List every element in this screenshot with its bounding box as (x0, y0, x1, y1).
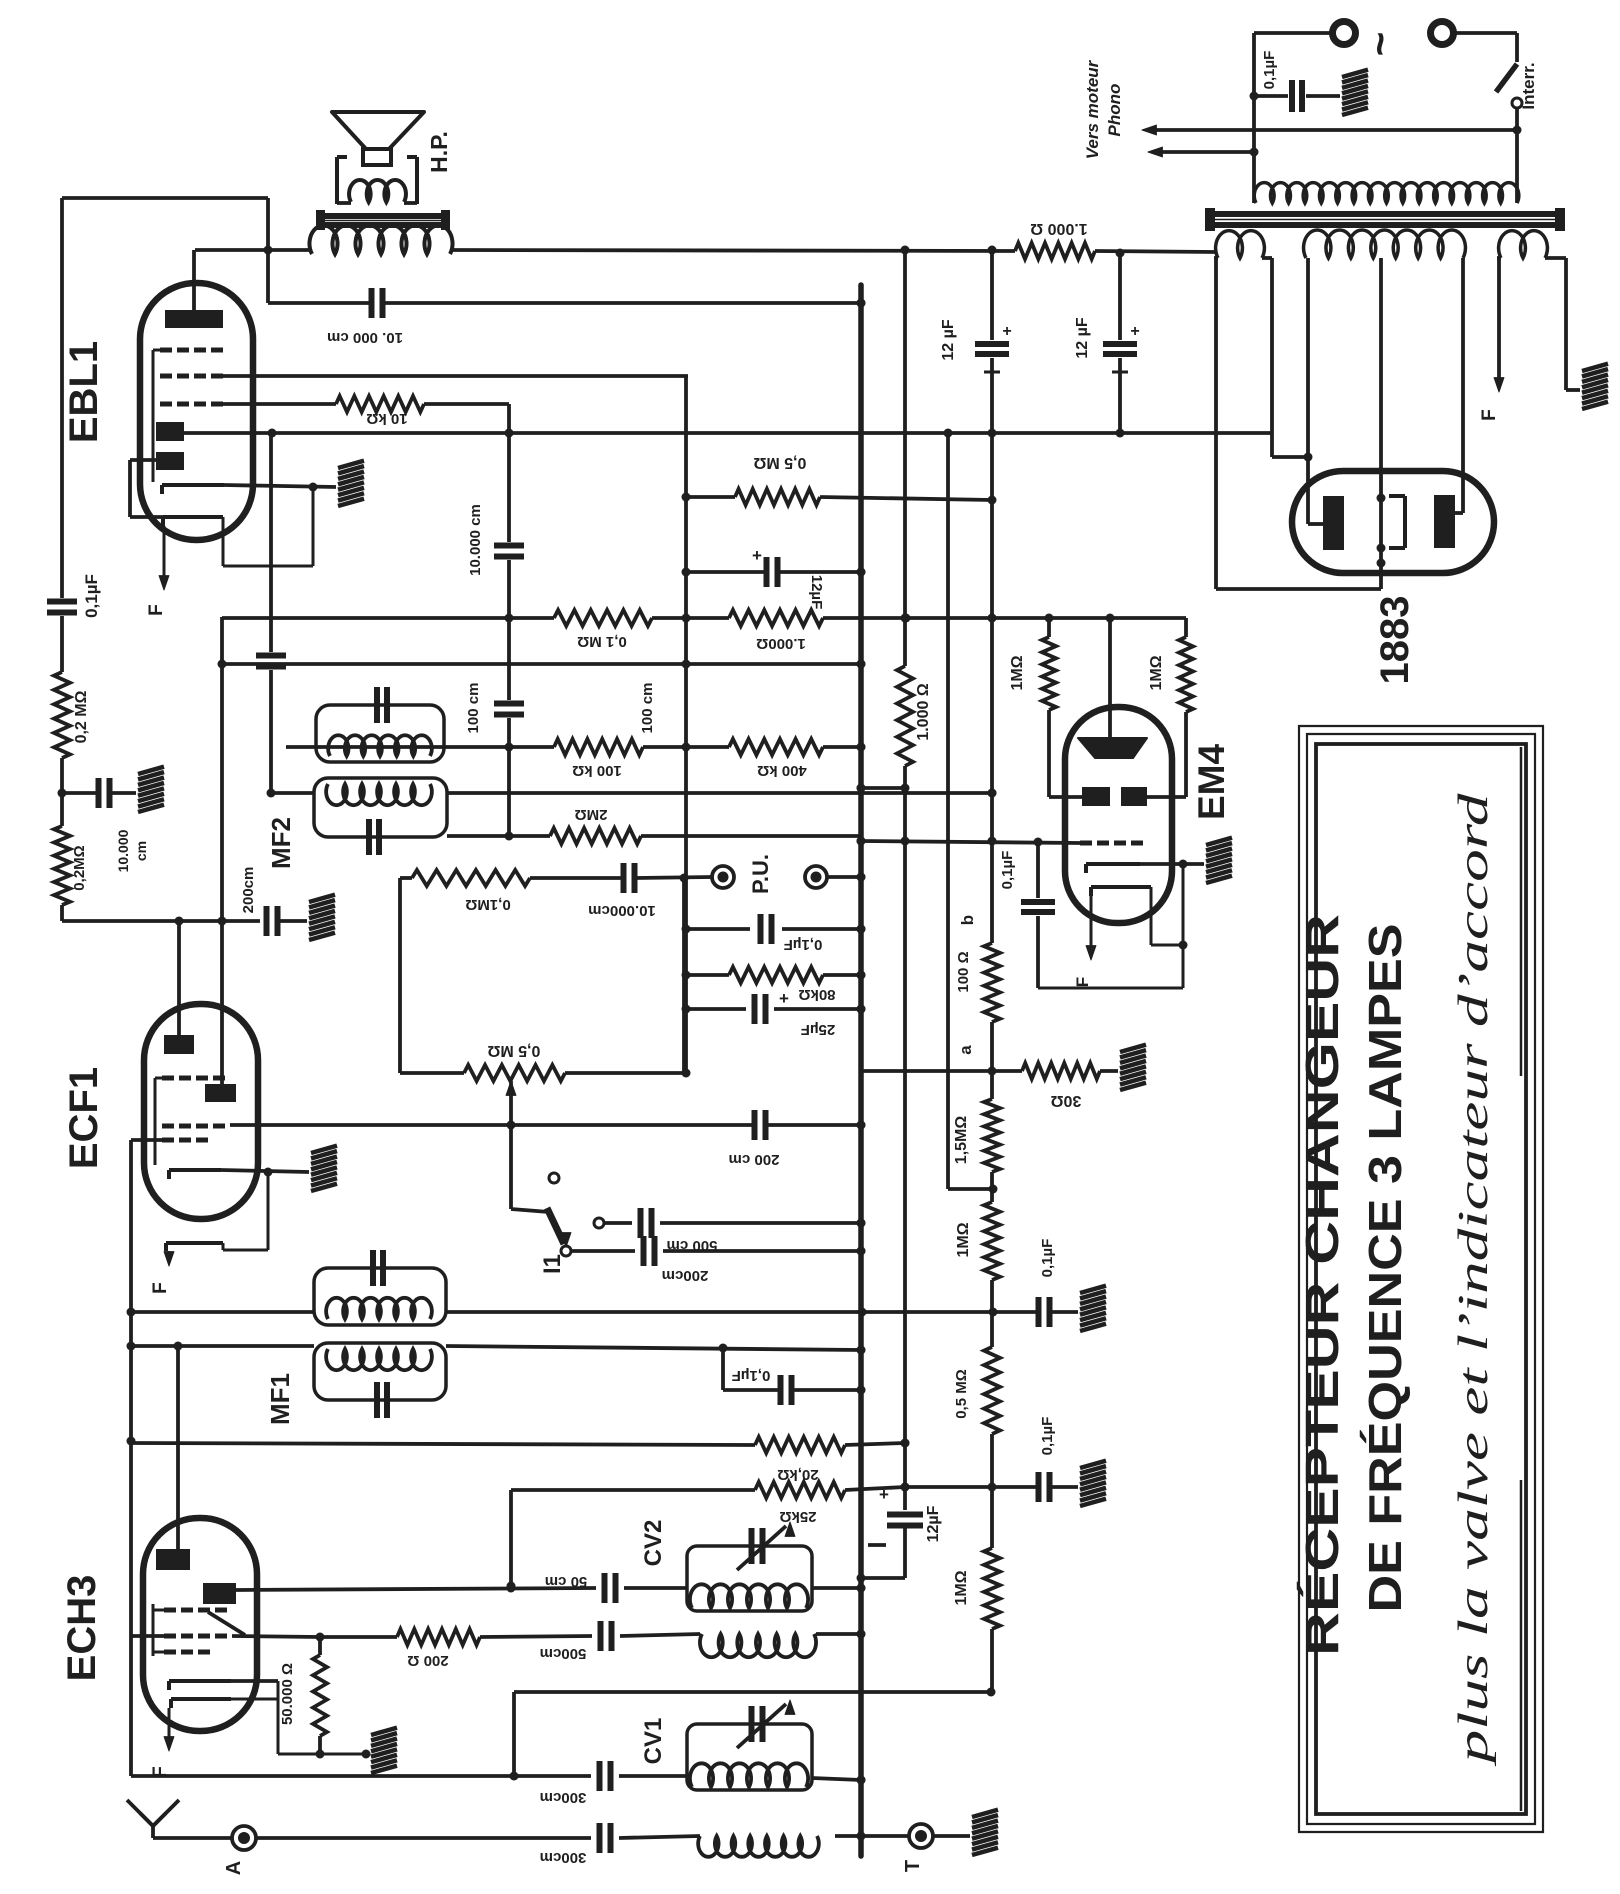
transformer primary coil (1254, 183, 1519, 203)
capacitor 200cm (264, 906, 270, 936)
CV1 coil (690, 1763, 808, 1787)
antenna coil (698, 1836, 819, 1857)
EBL1 plate (165, 310, 223, 328)
svg-text:plus la valve et l’indicateur: plus la valve et l’indicateur d’accord (1451, 792, 1497, 1767)
wire PU right to bus (827, 875, 861, 879)
node y433 junctions (268, 429, 277, 438)
svg-text:0,2MΩ: 0,2MΩ (71, 845, 88, 890)
node bus top (857, 299, 866, 308)
wire 50cm to CV2 (624, 1586, 687, 1590)
ECF1 F arrow (168, 1251, 171, 1253)
coil3 left F arrow (1497, 258, 1501, 382)
ground ECH3 (371, 1728, 397, 1735)
wire y152 phono (1156, 150, 1254, 154)
svg-text:MF1: MF1 (265, 1373, 295, 1425)
tube 1883 envelope (1292, 471, 1494, 573)
link bus to x905 (861, 786, 905, 790)
tube ECH3 envelope (143, 1518, 257, 1731)
svg-text:0,1µF: 0,1µF (784, 936, 823, 953)
resistor 30 ohm (1022, 1063, 1100, 1079)
secondary coil 1 (1216, 231, 1265, 258)
svg-text:A: A (223, 1861, 245, 1875)
ECF1 grid row2 (162, 1124, 174, 1129)
resistor 0,1M AF (412, 870, 530, 886)
title box outer wavy border (1299, 726, 1543, 1832)
MF2 primary coil (328, 735, 432, 756)
ECF1 grid row1 (162, 1076, 174, 1081)
EBL1 cathode bracket2 (163, 515, 223, 519)
wire left edge vertical (60, 198, 64, 598)
coil2 left down (1306, 258, 1310, 524)
svg-text:25µF: 25µF (801, 1021, 836, 1038)
resistor 2M (550, 828, 641, 844)
resistor 1M EM4 right (1179, 637, 1193, 712)
output transformer primary coil (309, 225, 452, 254)
wire cap to PU (636, 877, 712, 878)
wire x511 down to 50cm line (509, 1490, 513, 1586)
node x509 y747 (505, 743, 514, 752)
ECF1 pentode plate lead x222 (220, 921, 224, 1084)
svg-text:500 cm: 500 cm (667, 1237, 718, 1254)
EBL1 cathode wire to ground (224, 485, 336, 487)
wire y1312 MF1 upper line (131, 1310, 314, 1314)
svg-text:20,kΩ: 20,kΩ (777, 1466, 818, 1483)
wire antenna to A terminal (153, 1836, 232, 1840)
1883 left plate (1323, 496, 1344, 550)
wire T to ground (933, 1834, 970, 1838)
ECH3 hexode plate rect (203, 1583, 236, 1604)
svg-text:H.P.: H.P. (426, 131, 452, 173)
terminal P.U. right (805, 866, 827, 888)
ECH3 hexode plate lead wire y1588 (236, 1588, 596, 1590)
wire y1487 to ground cap (905, 1485, 1036, 1489)
svg-text:1,5MΩ: 1,5MΩ (953, 1116, 970, 1165)
wire y618 plate load line (222, 616, 554, 620)
wire wiper down to switch (509, 1125, 513, 1209)
ground EBL1 (338, 461, 364, 468)
wire 500cm branch (594, 1218, 604, 1228)
svg-text:50.000 Ω: 50.000 Ω (279, 1663, 296, 1725)
wire osc coil to bus (816, 1632, 861, 1636)
wire MF1 lower east to bus (446, 1346, 861, 1350)
bus junction dots (857, 299, 866, 308)
wire mains left (1254, 31, 1332, 35)
CV2 arrow (737, 1526, 786, 1570)
capacitor 0,1uF left edge (47, 599, 77, 605)
capacitor 0,1uF to ground upper (993, 1310, 1036, 1314)
switch Interr lever (1496, 64, 1517, 92)
CV2 box (687, 1546, 812, 1611)
pot wiper arrow (506, 1081, 516, 1095)
svg-text:10 kΩ: 10 kΩ (366, 410, 407, 427)
loudspeaker voice coil (349, 180, 406, 202)
wire y433 long B+ wire (184, 431, 1272, 435)
capacitor 12uF near EBL1 (764, 557, 770, 587)
ground left 10.000cm (138, 767, 164, 774)
wire y1692 long (514, 1690, 991, 1694)
svg-text:0,1MΩ: 0,1MΩ (465, 896, 510, 913)
wire switch down (1515, 108, 1519, 203)
svg-text:1.000 Ω: 1.000 Ω (915, 683, 932, 740)
capacitor 500cm osc (598, 1621, 604, 1651)
svg-text:1883: 1883 (1373, 596, 1417, 685)
MF2 secondary box (314, 778, 447, 837)
capacitor 100cm x270 (269, 433, 273, 652)
ECF1 cathode bracket2 (166, 1241, 223, 1245)
wire y1009 25uF branch (686, 1007, 746, 1011)
ground mains cap (1342, 70, 1368, 77)
capacitor 0,1uF mains (1254, 94, 1288, 98)
wire 1M third to y1692 (990, 1629, 994, 1692)
wire y1490 25k line (511, 1488, 755, 1492)
MF2 secondary cap (366, 819, 372, 855)
oscillator coupling coil (700, 1634, 816, 1657)
wire 200ohm to 500cm (480, 1636, 592, 1637)
loudspeaker neck (363, 149, 391, 165)
EM4 cathode bracket1 (1086, 862, 1140, 866)
svg-text:~: ~ (1356, 32, 1403, 57)
svg-text:+: + (879, 1485, 889, 1504)
EBL1 grid row 3 (160, 402, 172, 407)
wire plate EBL1 to primary (195, 248, 312, 252)
capacitor 12uF first (975, 341, 1009, 347)
svg-text:0,1µF: 0,1µF (1261, 51, 1278, 90)
wire x686 vertical (684, 375, 688, 1073)
x948 bottom corner to 1,5M (948, 1187, 993, 1191)
svg-text:EM4: EM4 (1191, 744, 1232, 821)
svg-text:T: T (902, 1860, 924, 1872)
secondary coil 2 (1304, 230, 1466, 258)
ground transformer right (1582, 364, 1608, 371)
switch I1 lower contact (561, 1246, 571, 1256)
EM4 cathode to ground (1140, 862, 1204, 866)
MF2 primary cap (374, 687, 380, 723)
resistor 1M EM4 left (1042, 637, 1056, 710)
svg-text:0,1µF: 0,1µF (999, 851, 1016, 890)
wire to antenna coil (619, 1836, 700, 1838)
ground EM4 (1206, 838, 1232, 845)
wire switch to 200cm cap (571, 1249, 635, 1253)
svg-text:0,5 MΩ: 0,5 MΩ (753, 454, 806, 471)
wire y619 EM4 feed (1045, 614, 1054, 623)
transformer core (1208, 211, 1562, 217)
ECH3 grid2 lead east (232, 1636, 320, 1637)
resistor 10kOhm (336, 396, 424, 412)
svg-text:Phono: Phono (1105, 84, 1124, 137)
wire MF2 secondary to detector (447, 791, 992, 795)
resistor 0,5M y497 (735, 489, 820, 505)
MF1 upper box (314, 1268, 446, 1325)
wire y1776 from x131 (131, 1774, 591, 1778)
CV1 box (687, 1724, 812, 1790)
capacitor 12uF third (887, 1512, 923, 1518)
ECH3 grid rows left bar (152, 1604, 155, 1656)
svg-text:10.000cm: 10.000cm (588, 902, 656, 919)
svg-text:50 cm: 50 cm (545, 1573, 588, 1590)
wire x1120 vertical (1118, 253, 1122, 340)
svg-text:10. 000 cm: 10. 000 cm (327, 329, 403, 346)
EBL1 grid2 lead wire y376 (223, 374, 688, 378)
wire y130 phono (1150, 128, 1517, 132)
ground ECF1 (311, 1146, 337, 1153)
wire x905 vertical top (903, 250, 907, 666)
svg-text:1.000 Ω: 1.000 Ω (1030, 220, 1087, 237)
ECH3 grid row2 (164, 1634, 176, 1639)
ECH3 plate lead (176, 1346, 180, 1549)
svg-text:1.000Ω: 1.000Ω (756, 635, 806, 652)
terminal P.U. left (712, 866, 734, 888)
svg-text:500cm: 500cm (540, 1645, 587, 1662)
EBL1 grid row 1 (160, 348, 172, 353)
MF1 lower box (314, 1343, 446, 1400)
svg-text:300cm: 300cm (540, 1849, 587, 1866)
tube EBL1 envelope (140, 283, 253, 540)
wire x131 AVC vertical (129, 1140, 133, 1636)
wire 10k to x509 (424, 402, 509, 406)
svg-text:0,2 MΩ: 0,2 MΩ (73, 690, 90, 743)
wire 100ohm to a (990, 1022, 994, 1099)
capacitor 0,1uF EM4 (1036, 842, 1040, 898)
svg-text:0,1µF: 0,1µF (82, 574, 101, 618)
mains terminal left (1333, 22, 1356, 45)
resistor 1M second vertical (984, 1202, 1000, 1280)
resistor 1.000 ohm vertical (897, 666, 913, 766)
wire CV2 to bus (812, 1586, 861, 1590)
EM4 grid leads (1047, 710, 1051, 797)
wire y747 (286, 745, 554, 749)
node x62 y793 (58, 789, 67, 798)
svg-text:I1: I1 (539, 1254, 566, 1274)
svg-text:a: a (956, 1045, 975, 1055)
svg-text:300cm: 300cm (540, 1789, 587, 1806)
EM4 target fan (1078, 738, 1147, 758)
mains terminal right (1431, 22, 1454, 45)
capacitor 10.000cm AF (621, 863, 627, 893)
wire bus to T terminal (861, 1834, 908, 1838)
svg-text:100 kΩ: 100 kΩ (572, 762, 622, 779)
minus mark 12uF third (868, 1543, 886, 1547)
svg-text:10.000: 10.000 (115, 829, 131, 872)
svg-text:cm: cm (133, 841, 149, 861)
svg-text:F: F (150, 1282, 171, 1294)
svg-text:0,5 MΩ: 0,5 MΩ (953, 1369, 970, 1419)
capacitor 500cm (638, 1208, 644, 1238)
antenna symbol (127, 1800, 153, 1826)
capacitor 0,1uF AVC (778, 1375, 784, 1405)
wire mains right to switch (1454, 31, 1517, 35)
wire 500cm to osc coil (620, 1634, 700, 1636)
capacitor 12uF second (1103, 341, 1137, 347)
wire x948 vertical (946, 433, 950, 1189)
switch I1 upper contact (549, 1173, 559, 1183)
ECF1 plate lead x179 (177, 921, 181, 1035)
ECF1 cathode bracket1 (169, 1168, 221, 1172)
svg-text:F: F (1073, 977, 1092, 987)
ECH3 grid row3 (164, 1650, 176, 1655)
svg-text:F: F (146, 604, 167, 616)
svg-text:0,1µF: 0,1µF (1039, 1239, 1056, 1278)
svg-text:EBL1: EBL1 (62, 341, 106, 443)
svg-text:F: F (1479, 409, 1500, 421)
resistor 80k (729, 967, 823, 983)
EBL1 cathode bracket1 (162, 483, 224, 487)
wire y1125 grid line ECF1 (230, 1123, 753, 1127)
ECF1 pentode plate (205, 1084, 236, 1102)
wire x514 vertical (512, 1692, 516, 1776)
node x1120 y253 (1116, 249, 1125, 258)
ECF1 cathode loop (267, 1172, 270, 1250)
MF2 primary box (316, 705, 444, 762)
ground 200cm (309, 895, 335, 902)
capacitor 50cm (602, 1573, 608, 1603)
CV2 variable capacitor (749, 1528, 755, 1564)
svg-text:1MΩ: 1MΩ (1009, 655, 1026, 690)
resistor 400k y747 (729, 739, 823, 755)
wire HT to coil1 (1214, 258, 1218, 589)
wire top-left corner loop (62, 196, 268, 200)
wire x62 bottom corner (60, 905, 64, 921)
resistor 0,2M upper (54, 672, 70, 758)
wire x509 vertical (507, 434, 511, 542)
EBL1 plate lead (192, 250, 196, 310)
EBL1 grid row 2 (160, 374, 172, 379)
svg-text:Interr.: Interr. (1519, 62, 1538, 109)
switch I1 lever (547, 1208, 564, 1244)
coil2 tap down (1379, 258, 1383, 563)
loudspeaker frame (335, 157, 339, 204)
svg-text:b: b (958, 915, 977, 925)
wire 300cm to CV1 (619, 1774, 687, 1778)
resistor 0,5M vertical (984, 1347, 1000, 1434)
ECH3 F arrow (168, 1708, 171, 1743)
wire MF1 upper east (446, 1310, 993, 1314)
resistor 1,5M vertical (984, 1099, 1000, 1172)
12uF third to bus (903, 1526, 907, 1578)
MF1 upper coil (326, 1298, 432, 1319)
output transformer core (318, 213, 448, 219)
svg-text:0,5 MΩ: 0,5 MΩ (487, 1042, 540, 1059)
wire AVC cap branch (719, 1344, 728, 1353)
CV1 variable capacitor (749, 1706, 755, 1742)
node x686 y747 (682, 743, 691, 752)
EBL1 grid1 left hook (153, 349, 160, 352)
svg-text:CV1: CV1 (640, 1718, 667, 1765)
resistor 1.000 ohm top (1015, 243, 1095, 259)
svg-text:200 Ω: 200 Ω (407, 1652, 448, 1669)
capacitor 200cm switch (641, 1236, 647, 1266)
secondary coil 3 (1499, 231, 1548, 258)
title box inner border (1316, 744, 1526, 1814)
capacitor 300cm upper (597, 1761, 603, 1791)
svg-text:+: + (752, 546, 762, 565)
terminal A (232, 1826, 256, 1850)
resistor 100k y747 (554, 739, 643, 755)
wire x270 to MF2 secondary (271, 791, 314, 795)
coil3 right to ground (1564, 258, 1568, 390)
1883 filament out bottom (1379, 563, 1383, 589)
resistor 1M third vertical (984, 1548, 1000, 1629)
svg-text:100 cm: 100 cm (639, 683, 656, 734)
svg-text:30Ω: 30Ω (1051, 1092, 1082, 1109)
coil2 right down (1461, 258, 1465, 513)
wire A to 300cm (256, 1836, 591, 1840)
capacitor 300cm lower (597, 1823, 603, 1853)
svg-text:ECH3: ECH3 (60, 1575, 104, 1682)
EBL1 third rect (156, 452, 184, 470)
svg-text:2MΩ: 2MΩ (575, 806, 608, 823)
resistor 25k (755, 1482, 845, 1498)
resistor 1.000ohm on y618 (729, 610, 823, 626)
ECH3 plate (156, 1549, 190, 1570)
wire y572 12uF branch (686, 570, 766, 574)
potentiometer 0,5M (464, 1065, 565, 1081)
svg-text:Vers moteur: Vers moteur (1083, 59, 1102, 159)
wire pot right (565, 1071, 686, 1075)
wire MF2 bottom to 2M line (447, 834, 509, 838)
wire y929 0,1uF branch (686, 927, 750, 931)
svg-text:200cm: 200cm (662, 1267, 709, 1284)
svg-text:0,1µF: 0,1µF (1039, 1417, 1056, 1456)
svg-text:100 cm: 100 cm (465, 683, 482, 734)
coil1 right down (1270, 258, 1274, 457)
node x905 y250 (901, 246, 910, 255)
resistor 50.000 ohm (313, 1655, 327, 1736)
capacitor 10.000cm to ground left (62, 791, 96, 795)
MF1 lower coil (326, 1349, 432, 1370)
wire y497 0,5M line (686, 495, 735, 499)
wire antenna coil to bus (835, 1834, 861, 1838)
wire x905 lower (903, 766, 907, 1510)
resistor 0,2M lower (54, 826, 70, 905)
svg-text:+: + (1130, 323, 1139, 340)
EM4 F arrow (1090, 896, 1093, 952)
EM4 envelope (1065, 707, 1172, 923)
x992 cap to y433 (990, 358, 994, 433)
capacitor 200cm grid (752, 1110, 758, 1140)
svg-text:1MΩ: 1MΩ (953, 1570, 970, 1605)
ground 0,1uF upper (1080, 1286, 1106, 1293)
nodes on y618 (505, 614, 514, 623)
EBL1 grid3 lead (223, 402, 336, 406)
resistor 0,1M on y618 (554, 610, 652, 626)
svg-text:100 Ω: 100 Ω (955, 951, 972, 992)
ground 0,1uF lower (1080, 1461, 1106, 1468)
ECH3 cathode bracket2 (171, 1697, 231, 1701)
ECF1 cathode wire ground (221, 1170, 309, 1172)
wire y1071 30ohm line (861, 1069, 992, 1073)
svg-text:P.U.: P.U. (748, 854, 773, 894)
wire x222 vertical ECF1 screen lead (220, 617, 224, 921)
ground 30 ohm (1120, 1045, 1146, 1052)
svg-text:25kΩ: 25kΩ (779, 1508, 816, 1525)
svg-text:1MΩ: 1MΩ (1148, 655, 1165, 690)
ECH3 cathode loop (231, 1679, 278, 1683)
wire y664 (222, 662, 861, 666)
capacitor 0,1uF PU branch (758, 914, 764, 944)
svg-text:0,1µF: 0,1µF (732, 1367, 771, 1384)
svg-text:CV2: CV2 (640, 1520, 667, 1567)
svg-text:+: + (779, 989, 789, 1008)
MF2 secondary coil (326, 784, 432, 805)
loudspeaker H.P. horn (332, 112, 424, 149)
MF1 lower cap (374, 1382, 380, 1418)
svg-text:MF2: MF2 (266, 817, 296, 869)
resistor 200 ohm (320, 1635, 397, 1639)
capacitor 10.000cm x509 (494, 543, 524, 549)
svg-text:+: + (1002, 323, 1011, 340)
ECF1 plate triode (164, 1035, 194, 1054)
node x686 y664 (682, 660, 691, 669)
